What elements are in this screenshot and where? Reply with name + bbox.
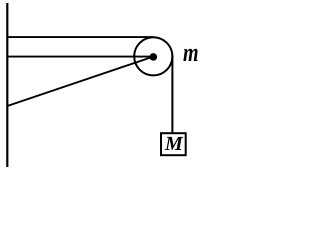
wire: diagonal stay from wall to pulley axle [7, 57, 153, 106]
pulley m (circle) [134, 37, 172, 75]
wire: horizontal string from wall tangent to pulley top [7, 36, 153, 38]
mass M box [161, 133, 186, 155]
pulley axle dot [150, 53, 158, 61]
wire: horizontal rod from wall to pulley axle [7, 56, 153, 58]
wall (vertical support line) [6, 3, 8, 167]
wire: vertical string from pulley down to mass M [171, 56, 173, 134]
svg-text:M: M [164, 133, 184, 155]
svg-text:m: m [183, 38, 199, 67]
